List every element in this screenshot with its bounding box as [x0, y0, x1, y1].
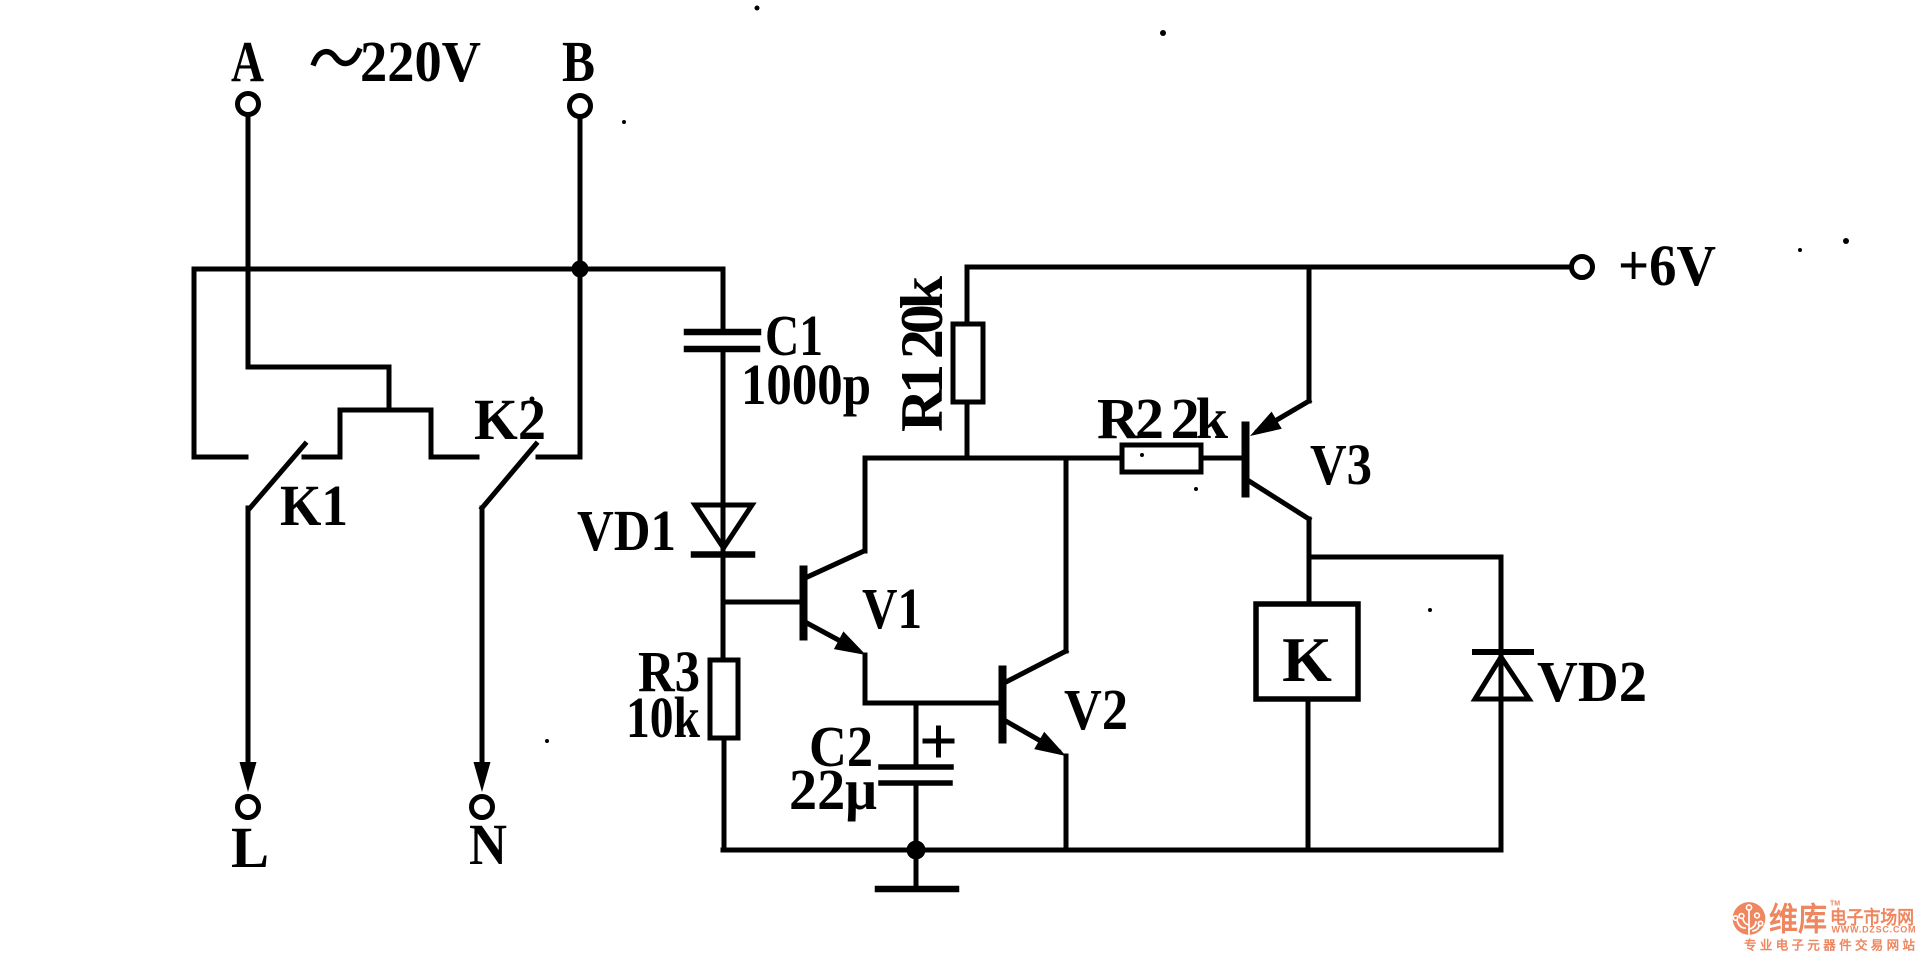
terminal L — [238, 797, 259, 818]
switch K2 blade — [482, 444, 536, 508]
svg-text:TM: TM — [1830, 901, 1840, 908]
ground — [878, 850, 956, 889]
terminal N — [472, 797, 493, 818]
svg-text:B: B — [562, 29, 595, 94]
wire mid rail — [865, 456, 1122, 461]
wire left drop — [192, 269, 197, 457]
wire V2 emitter down — [1064, 756, 1069, 850]
mechanical link bracket — [340, 410, 431, 457]
label ~220V — [314, 51, 359, 63]
wire V3 emitter up — [1307, 267, 1312, 401]
wire top-left rail — [194, 267, 723, 272]
resistor R3 — [710, 660, 738, 738]
wire V1 collector up — [863, 458, 868, 551]
resistor R2 — [1122, 445, 1242, 472]
svg-text:N: N — [469, 812, 507, 877]
svg-text:+6V: +6V — [1618, 233, 1716, 298]
svg-text:维库: 维库 — [1769, 901, 1827, 937]
watermark logo — [1733, 901, 1916, 953]
svg-text:专业电子元器件交易网站: 专业电子元器件交易网站 — [1744, 938, 1915, 953]
transistor V3 — [1242, 401, 1309, 519]
wire V3 collector down — [1307, 519, 1312, 604]
arrow N — [474, 762, 491, 792]
wire K to VD2 link — [1309, 557, 1501, 651]
wire R3 bottom — [722, 738, 727, 850]
svg-text:220V: 220V — [360, 29, 481, 94]
svg-text:VD2: VD2 — [1537, 649, 1647, 714]
svg-text:K1: K1 — [280, 473, 348, 538]
wire K1 fixed lead — [194, 455, 246, 460]
svg-text:R2 2k: R2 2k — [1097, 386, 1229, 451]
capacitor C1 — [687, 269, 758, 505]
transistor V1 — [723, 551, 864, 650]
arrow V2 emitter — [1034, 732, 1066, 756]
scan speckles — [530, 6, 1850, 744]
relay K — [1256, 604, 1358, 699]
wire L lead — [246, 508, 251, 765]
wire N lead — [480, 508, 485, 765]
wire top-right rail — [967, 265, 1571, 270]
svg-text:V2: V2 — [1064, 677, 1128, 742]
arrow L — [240, 762, 257, 792]
wire V2 collector up — [1064, 458, 1069, 651]
transistor V2 — [999, 651, 1066, 751]
wire link left foot — [304, 455, 340, 460]
svg-text:V3: V3 — [1310, 432, 1372, 497]
terminal +6V — [1572, 257, 1593, 278]
wire B drop — [578, 117, 583, 457]
svg-text:A: A — [231, 29, 264, 94]
diode VD2 — [1475, 651, 1531, 850]
wire V1 emitter to V2 base — [865, 655, 999, 703]
wire bottom rail — [723, 848, 1501, 853]
wire link right foot — [431, 455, 477, 460]
svg-text:10k: 10k — [626, 685, 701, 750]
junction ground node — [907, 841, 926, 860]
resistor R1 — [953, 267, 983, 458]
svg-text:L: L — [231, 815, 269, 880]
svg-text:V1: V1 — [862, 576, 922, 641]
switch K1 blade — [250, 444, 305, 508]
svg-text:K2: K2 — [474, 387, 546, 452]
wire A route to link — [248, 367, 389, 410]
capacitor C2 — [881, 703, 952, 850]
terminal A — [238, 94, 259, 115]
svg-text:K: K — [1282, 624, 1332, 695]
wire K bottom — [1306, 699, 1311, 850]
svg-text:1000p: 1000p — [741, 352, 871, 417]
junction B-rail — [572, 261, 589, 278]
svg-text:WWW.DZSC.COM: WWW.DZSC.COM — [1832, 925, 1916, 935]
terminal B — [570, 96, 591, 117]
wire A drop — [246, 115, 251, 367]
diode VD1 — [694, 505, 752, 660]
svg-text:22μ: 22μ — [789, 757, 877, 822]
arrow V3 emitter — [1250, 412, 1282, 436]
wire K2 fixed lead — [538, 455, 580, 460]
svg-text:VD1: VD1 — [577, 498, 676, 563]
svg-text:R1 20k: R1 20k — [889, 275, 955, 432]
arrow V1 emitter — [834, 631, 866, 655]
